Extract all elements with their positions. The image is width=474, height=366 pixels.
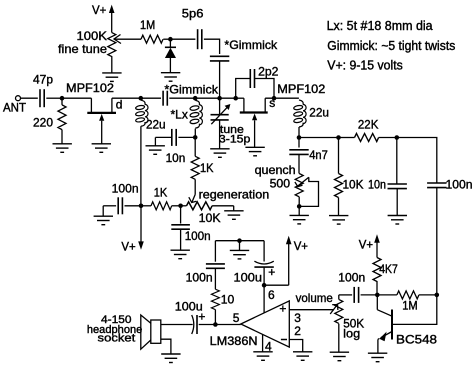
svg-text:10K: 10K (199, 211, 221, 225)
variable capacitor tune 3-15p (219, 98, 221, 114)
svg-text:220: 220 (33, 116, 53, 130)
resistor 10 (audio filter) (214, 268, 216, 289)
capacitor 100u (V+ filter electrolytic) (263, 241, 265, 262)
ground (pin 2) (293, 352, 312, 361)
svg-text:volume: volume (296, 291, 334, 305)
svg-text:+: + (268, 265, 275, 279)
node: quench node (297, 135, 302, 140)
svg-text:100n: 100n (338, 271, 365, 285)
node: 10K top (336, 135, 341, 140)
svg-text:6: 6 (268, 288, 275, 302)
ground (varactor) (161, 73, 180, 82)
wire: junction to JFET1 (62, 97, 91, 99)
svg-text:100n: 100n (112, 181, 139, 195)
ground (BC548 emitter) (368, 353, 387, 362)
node: tank top (Lx) (193, 96, 198, 101)
svg-text:100K: 100K (77, 29, 108, 43)
ground (10n) (146, 146, 165, 155)
node: drain / 22u choke (139, 96, 144, 101)
speaker / headphone socket (151, 320, 161, 343)
svg-text:100u: 100u (234, 271, 263, 285)
node: 22K right / 10n top (395, 135, 400, 140)
svg-text:*Gimmick: *Gimmick (224, 38, 278, 52)
svg-text:500: 500 (270, 176, 291, 190)
resistor 10K (quench filter) (338, 138, 340, 174)
node: ground bus (237, 238, 242, 243)
node: Q2 source / 2p2 right (272, 96, 277, 101)
inductor 22u (drain choke) (135, 100, 148, 126)
svg-text:ANT: ANT (3, 101, 27, 115)
node: LM386 output (213, 322, 218, 327)
ground (speaker) (161, 354, 180, 363)
capacitor 100n (regen wiper bypass) (180, 206, 182, 224)
node: pin6 V+ junction (262, 283, 267, 288)
svg-text:log: log (343, 327, 360, 341)
ground (220) (53, 144, 72, 153)
wire: pin 6 (V+) (263, 285, 265, 313)
svg-text:LM386N: LM386N (210, 334, 258, 348)
capacitor 10n (quench filter) (396, 138, 398, 185)
wire: tune junction to 2p2 node (220, 97, 236, 99)
resistor 220 (61, 98, 63, 105)
svg-text:*Gimmick: *Gimmick (164, 82, 219, 96)
resistor R1 1M (141, 35, 163, 43)
svg-text:+: + (279, 302, 286, 316)
svg-text:100n: 100n (185, 229, 211, 243)
wire: 22u down to V+ bus (140, 126, 142, 206)
node: regen pot left (178, 204, 183, 209)
node: 1M right / collector column (435, 293, 440, 298)
resistor 1K (V+ feed) (141, 205, 151, 207)
ground (10K) (329, 216, 348, 225)
svg-text:1M: 1M (140, 18, 155, 32)
ground (tune cap) (210, 149, 229, 158)
svg-text:fine tune: fine tune (58, 42, 107, 56)
varactor diode D1 (165, 46, 176, 48)
ground (volume pot) (330, 352, 349, 361)
svg-text:V+: V+ (121, 240, 135, 254)
node: tune cap junction (217, 96, 222, 101)
svg-text:22u: 22u (309, 105, 329, 119)
resistor 1M (feedback) (377, 294, 397, 296)
resistor 1K (tank to regen wiper) (194, 137, 196, 156)
svg-text:10: 10 (221, 293, 235, 307)
svg-text:Lx: 5t #18 8mm dia: Lx: 5t #18 8mm dia (327, 19, 433, 33)
wire: tank to tune cap (195, 97, 219, 99)
svg-text:1K: 1K (200, 161, 214, 175)
wire: Q1 drain to 22u (112, 97, 141, 99)
inductor 22u (source choke) (293, 100, 306, 127)
capacitor 100n (AF coupling) (339, 294, 352, 296)
svg-text:10n: 10n (368, 177, 386, 191)
svg-text:10n: 10n (166, 151, 186, 165)
svg-text:4n7: 4n7 (309, 148, 328, 162)
svg-text:regeneration: regeneration (199, 188, 270, 202)
svg-text:V+: 9-15 volts: V+: 9-15 volts (327, 59, 403, 73)
svg-text:V+: V+ (294, 239, 308, 253)
wire: filter cap ground bus (215, 240, 264, 242)
ground (100K pot) (102, 73, 121, 82)
node: 47p / 220 / source junction (60, 96, 65, 101)
node: BC548 base node (375, 293, 380, 298)
svg-text:100n: 100n (186, 271, 213, 285)
power V+ (LM386 supply) (264, 284, 289, 286)
capacitor 100n (audio coupling right column) (427, 182, 446, 184)
inductor Lx (tank coil) (190, 100, 203, 128)
capacitor 4n7 (quench) (298, 138, 300, 148)
potentiometer 50K log volume (338, 295, 340, 300)
node: Q2 drain / 2p2 left (233, 96, 238, 101)
capacitor 5p6 (170, 38, 195, 40)
svg-text:+: + (198, 309, 205, 323)
svg-text:22u: 22u (146, 117, 166, 131)
svg-text:22K: 22K (358, 118, 379, 132)
svg-text:V+: V+ (359, 237, 373, 251)
wire: to right column (397, 138, 437, 184)
capacitor 2p2 (feedback) (236, 79, 251, 99)
svg-text:100n: 100n (446, 178, 473, 192)
capacitor C *Gimmick (oscillator coupling) (162, 91, 164, 106)
wire: collector feed (393, 295, 437, 325)
wire: speaker to ground (161, 339, 171, 354)
svg-text:MPF102: MPF102 (277, 82, 325, 96)
svg-text:2: 2 (294, 324, 301, 338)
capacitor C *Gimmick (fine tune coupling) (210, 55, 229, 57)
antenna terminal ANT (16, 96, 21, 101)
wire: 1K to regen pot wiper arrow (194, 179, 196, 194)
svg-text:1M: 1M (402, 299, 418, 313)
svg-text:*Lx: *Lx (171, 107, 188, 121)
svg-text:5p6: 5p6 (182, 7, 204, 21)
wire: pin 2 to ground (289, 340, 302, 352)
svg-text:1K: 1K (154, 186, 168, 200)
ground (10n right) (388, 216, 407, 225)
capacitor 47p (39, 89, 41, 107)
capacitor 10n (tank bypass) (178, 136, 195, 138)
resistor 4K7 (373, 258, 381, 282)
power V+ (down arrow left) (140, 206, 142, 242)
ground (regen pot) (224, 211, 243, 220)
svg-text:MPF102: MPF102 (66, 81, 114, 95)
potentiometer R 100K fine tune (108, 33, 116, 57)
svg-text:V+: V+ (92, 3, 106, 17)
svg-text:10K: 10K (343, 177, 364, 191)
wire: pin 3 to volume wiper (289, 309, 334, 311)
node: tank bottom (193, 135, 198, 140)
svg-text:3-15p: 3-15p (219, 133, 251, 145)
svg-text:Gimmick: ~5 tight twists: Gimmick: ~5 tight twists (327, 39, 455, 53)
ground (100n regen) (171, 250, 190, 259)
wire: quench node to 22K (299, 137, 339, 139)
svg-text:quench: quench (255, 163, 296, 177)
node: 1M / varactor / 5p6 junction (168, 37, 173, 42)
capacitor 100n (audio filter) (214, 241, 216, 262)
op-amp U1 LM386N (241, 301, 289, 347)
svg-text:4K7: 4K7 (379, 262, 398, 276)
svg-text:socket: socket (98, 332, 136, 344)
svg-text:2p2: 2p2 (258, 64, 279, 78)
svg-text:5: 5 (233, 311, 240, 325)
node: quench pot bottom (297, 204, 302, 209)
wire: drain line to gimmick cap (141, 97, 161, 99)
ground (pin 4) (253, 352, 272, 361)
ground (filter bus) (230, 250, 249, 259)
ground (quench pot) (290, 215, 309, 224)
ground (Q1 gate) (92, 144, 111, 153)
wire: pin 4 to ground (262, 334, 264, 351)
wire: 5p6 to gimmick drop (204, 39, 220, 54)
svg-text:BC548: BC548 (396, 333, 437, 347)
svg-text:47p: 47p (33, 73, 53, 87)
wire: pot bottom (111, 56, 113, 73)
ground (100n left) (94, 216, 113, 225)
svg-text:d: d (116, 98, 123, 112)
resistor 22K (339, 137, 355, 139)
node: V+ bus junction (139, 204, 144, 209)
ground (Q2 gate) (245, 147, 264, 156)
